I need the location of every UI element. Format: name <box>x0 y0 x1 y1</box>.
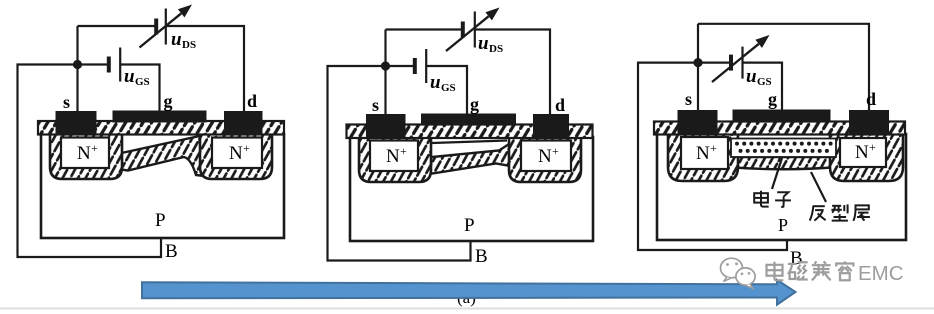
svg-text:GS: GS <box>441 82 456 94</box>
gate oxide layer Q1 <box>38 121 284 135</box>
source N+ tub Q3 <box>668 134 738 181</box>
leader line to inversion layer Q3 <box>811 172 826 202</box>
svg-text:g: g <box>768 89 777 109</box>
node junction on source lead <box>73 60 82 69</box>
watermark WeChat bubble small <box>736 268 755 289</box>
drain N+ tub Q1 <box>200 134 272 179</box>
watermark text dianci jianrong (EMC) <box>767 261 854 280</box>
drain contact d Q2 <box>533 114 569 138</box>
svg-text:P: P <box>464 215 475 236</box>
wire: gate branch from node through uGS to g <box>78 63 108 65</box>
variable-source arrow B3 <box>446 8 500 52</box>
svg-text:+: + <box>869 140 876 154</box>
battery uGS B4 <box>415 49 426 83</box>
wire: source lead up from s contact to top rail (mid) <box>384 30 386 115</box>
battery uGS B2 <box>109 48 120 82</box>
svg-text:P: P <box>155 210 166 231</box>
svg-text:N: N <box>77 143 91 164</box>
P substrate body Q1 <box>41 134 284 238</box>
svg-text:u: u <box>746 66 757 87</box>
wire: bulk loop from node to B terminal (right fig) <box>638 63 787 250</box>
variable-source arrow B5 <box>712 35 770 82</box>
svg-text:d: d <box>247 91 257 111</box>
svg-text:d: d <box>866 89 876 109</box>
label uDS 1 <box>171 29 196 51</box>
svg-text:+: + <box>710 141 717 155</box>
inversion layer depletion band Q3 <box>728 157 838 169</box>
svg-text:N: N <box>229 143 243 164</box>
big blue process arrow <box>142 280 796 305</box>
label uGS 1 <box>124 66 150 88</box>
svg-text:s: s <box>372 95 379 115</box>
svg-text:s: s <box>685 89 692 109</box>
label fanxingceng (inversion layer) Q3 <box>810 204 870 221</box>
svg-text:DS: DS <box>182 39 196 51</box>
P substrate body Q2 <box>350 137 593 241</box>
battery uDS source B1 <box>156 9 166 45</box>
drain N+ tub Q2 <box>509 137 581 182</box>
leader line to electron dots Q3 <box>772 158 782 189</box>
induced channel / depletion band Q2 <box>417 139 522 174</box>
svg-text:g: g <box>470 94 479 114</box>
svg-text:B: B <box>475 246 488 267</box>
svg-text:GS: GS <box>135 76 150 88</box>
label uDS 2 <box>478 33 503 55</box>
source contact s Q2 <box>366 114 406 138</box>
wire: top rail right segment from uDS battery down to d (mid) <box>476 30 551 115</box>
svg-text:d: d <box>555 95 565 115</box>
source N+ tub Q1 <box>50 134 122 179</box>
watermark WeChat bubble large <box>721 258 743 281</box>
wire: bulk loop from node to B terminal (mid) <box>328 66 471 261</box>
drain contact d Q3 <box>849 110 889 134</box>
node junction on source lead (right fig) <box>693 58 702 67</box>
P substrate body Q3 <box>657 134 906 240</box>
wire: top rail left segment to uDS battery <box>78 25 156 27</box>
svg-text:B: B <box>165 241 178 262</box>
svg-text:DS: DS <box>489 43 503 55</box>
variable-source arrow B1 <box>140 5 193 48</box>
svg-text:u: u <box>430 72 441 93</box>
svg-text:u: u <box>171 29 182 50</box>
svg-text:N: N <box>855 142 869 163</box>
gate oxide layer Q2 <box>347 125 593 139</box>
svg-text:N: N <box>386 146 400 167</box>
wire: top rail left segment to uDS battery (mid) <box>386 28 462 30</box>
svg-text:u: u <box>124 66 135 87</box>
wire: top rail shorting s to d (right fig) <box>698 24 869 112</box>
wire: source lead up from s contact to top rail (right fig) <box>697 24 699 112</box>
source contact s Q3 <box>678 110 718 135</box>
svg-text:GS: GS <box>757 76 772 88</box>
svg-text:+: + <box>400 144 407 158</box>
svg-text:N: N <box>696 143 710 164</box>
svg-text:s: s <box>63 92 70 112</box>
source N+ tub Q2 <box>359 137 431 182</box>
drain N+ tub Q3 <box>830 134 903 181</box>
electron (dotted) inversion region Q3 <box>731 139 836 158</box>
drain contact d Q1 <box>224 111 263 135</box>
label uGS 3 <box>746 66 772 88</box>
svg-text:u: u <box>478 33 489 54</box>
wire: gate branch from node through uGS to g (mid) <box>386 65 414 67</box>
battery uDS source B3 <box>463 12 475 48</box>
induced channel / depletion band Q1 <box>110 135 212 177</box>
wire: gate branch from node through uGS to g (right fig) <box>698 61 729 63</box>
gate electrode g Q1 <box>113 111 207 123</box>
svg-text:EMC: EMC <box>858 262 904 285</box>
gate electrode g Q2 <box>421 114 516 126</box>
battery uGS B5 <box>731 47 743 79</box>
svg-text:P: P <box>778 215 788 235</box>
bottom faint rule <box>0 308 934 310</box>
svg-text:N: N <box>538 146 552 167</box>
source contact s Q1 <box>56 111 97 135</box>
gate oxide layer Q3 <box>654 122 905 135</box>
svg-text:g: g <box>164 91 173 111</box>
wire: bulk loop from node to B terminal <box>18 65 162 258</box>
wire: top rail right segment from uDS battery down to d <box>166 26 244 112</box>
wire: source lead up from s contact to top rail <box>76 26 78 112</box>
node junction on source lead (mid) <box>381 61 390 70</box>
svg-text:+: + <box>91 141 98 155</box>
depletion boundary line Q2 <box>417 141 507 144</box>
svg-text:+: + <box>243 141 250 155</box>
svg-text:+: + <box>552 144 559 158</box>
label dianzi (electron) Q3 <box>754 191 791 208</box>
gate electrode g Q3 <box>733 110 831 123</box>
label uGS 2 <box>430 72 456 94</box>
